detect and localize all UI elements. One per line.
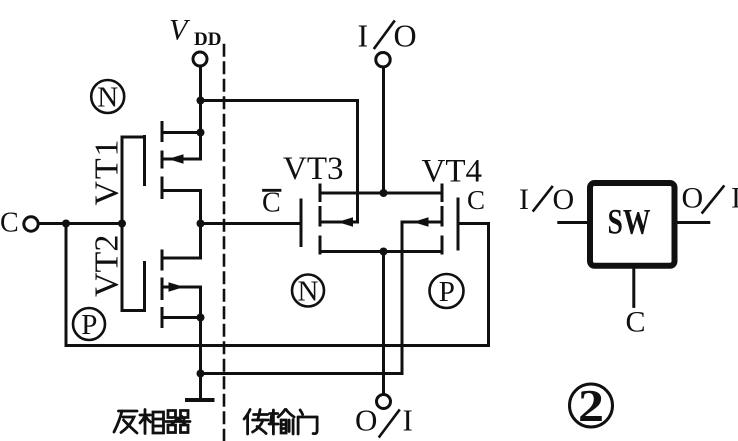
svg-text:VT1: VT1	[89, 140, 126, 206]
svg-text:N: N	[97, 82, 118, 114]
gate plate VT2	[143, 263, 146, 311]
svg-text:C: C	[262, 188, 281, 219]
wire ground rail	[199, 318, 202, 399]
ground	[185, 398, 215, 402]
node VDD junction	[197, 97, 205, 105]
wire VDD rail to VT1	[199, 101, 202, 160]
VT3 bulk arrow	[338, 217, 354, 227]
wire SW bottom lead C	[632, 269, 635, 307]
wire I/O drop	[382, 67, 385, 193]
wire bottom C run to VT4 gate	[66, 224, 489, 346]
wire VDD loop to VT3 bulk	[201, 101, 358, 223]
VT4 bulk arrow	[413, 217, 429, 227]
transistor VT2 channel	[161, 251, 164, 327]
wire C input	[39, 222, 123, 225]
svg-text:DD: DD	[194, 29, 221, 50]
label circle P inverter	[73, 308, 105, 340]
svg-text:VT2: VT2	[89, 235, 126, 297]
gate plate VT1	[143, 137, 146, 185]
label chuanshumen (transmission gate) CJK drawn	[244, 410, 317, 435]
node inverter output	[197, 220, 205, 228]
label circle N inverter	[91, 80, 124, 113]
VT1 bulk stub	[162, 158, 201, 161]
wire I/O to channels top	[320, 192, 442, 195]
label C-bar	[262, 188, 281, 219]
VT3 bulk stub	[320, 221, 358, 224]
label VT2 (rotated)	[89, 235, 126, 297]
label O/I right of SW	[682, 182, 738, 215]
label O/I bottom	[355, 403, 413, 438]
label fanxiangqi (inverter) CJK drawn	[114, 410, 190, 434]
VT1 bulk arrow	[168, 154, 184, 164]
VT2 source stub	[162, 316, 201, 319]
svg-text:I: I	[731, 182, 738, 215]
VT1 source stub	[162, 189, 201, 192]
node gate junction	[118, 220, 126, 228]
label circled 2	[570, 384, 613, 427]
svg-text:P: P	[81, 309, 97, 341]
wire inverter output to VT3 gate	[201, 222, 302, 225]
node ground branch	[197, 370, 205, 378]
wire C down branch	[65, 224, 68, 346]
svg-text:C: C	[467, 185, 485, 215]
node VDD label	[169, 14, 221, 51]
svg-text:P: P	[439, 276, 455, 308]
node O/I junction	[380, 248, 388, 256]
node I/O junction	[380, 189, 388, 197]
terminal VDD	[193, 52, 207, 66]
svg-text:N: N	[298, 276, 319, 308]
svg-text:I: I	[358, 18, 369, 54]
svg-text:O: O	[682, 182, 704, 215]
terminal O/I	[377, 395, 391, 409]
svg-text:O: O	[355, 403, 377, 438]
wire gate lead VT2	[122, 224, 145, 311]
node VT2 source	[197, 314, 205, 322]
svg-text:O: O	[553, 183, 575, 216]
wire O/I channels bottom	[320, 250, 442, 253]
VT2 drain stub	[162, 257, 201, 260]
node VT1 drain	[197, 129, 205, 137]
VT2 bulk stub	[162, 287, 201, 318]
wire VT1 source to output node and VT2	[199, 191, 202, 259]
wire gate lead VT1	[122, 137, 145, 224]
label VT1 (rotated)	[89, 140, 126, 206]
transistor VT1 channel	[161, 123, 164, 198]
boundary dashed line	[223, 45, 226, 441]
label I/O top	[358, 18, 417, 54]
wire SW right lead	[678, 221, 709, 224]
svg-text:VT3: VT3	[283, 151, 344, 187]
svg-text:O: O	[394, 18, 417, 54]
svg-text:C: C	[0, 208, 19, 239]
label circle P VT4	[430, 274, 464, 308]
svg-text:I: I	[519, 183, 529, 216]
VT2 bulk arrow	[169, 282, 185, 292]
wire VDD drop	[199, 66, 202, 100]
terminal I/O	[376, 53, 390, 67]
wire VT4 bulk return	[201, 222, 403, 374]
svg-text:SW: SW	[608, 202, 651, 242]
transistor VT3 channel	[319, 185, 322, 253]
gate plate VT4	[457, 199, 460, 249]
VT4 bulk stub	[402, 221, 442, 224]
transistor VT4 channel	[441, 185, 444, 253]
wire O/I rise	[382, 252, 385, 395]
gate plate VT3	[300, 200, 303, 246]
svg-text:I: I	[403, 403, 413, 438]
box SW	[590, 183, 675, 266]
VT1 drain stub	[162, 131, 201, 134]
svg-text:2: 2	[578, 381, 604, 431]
label circle N VT3	[292, 275, 324, 307]
svg-text:C: C	[626, 305, 646, 338]
wire SW left lead	[559, 221, 587, 224]
terminal C input	[24, 217, 38, 231]
node C branch	[62, 220, 70, 228]
label I/O left of SW	[519, 183, 574, 216]
